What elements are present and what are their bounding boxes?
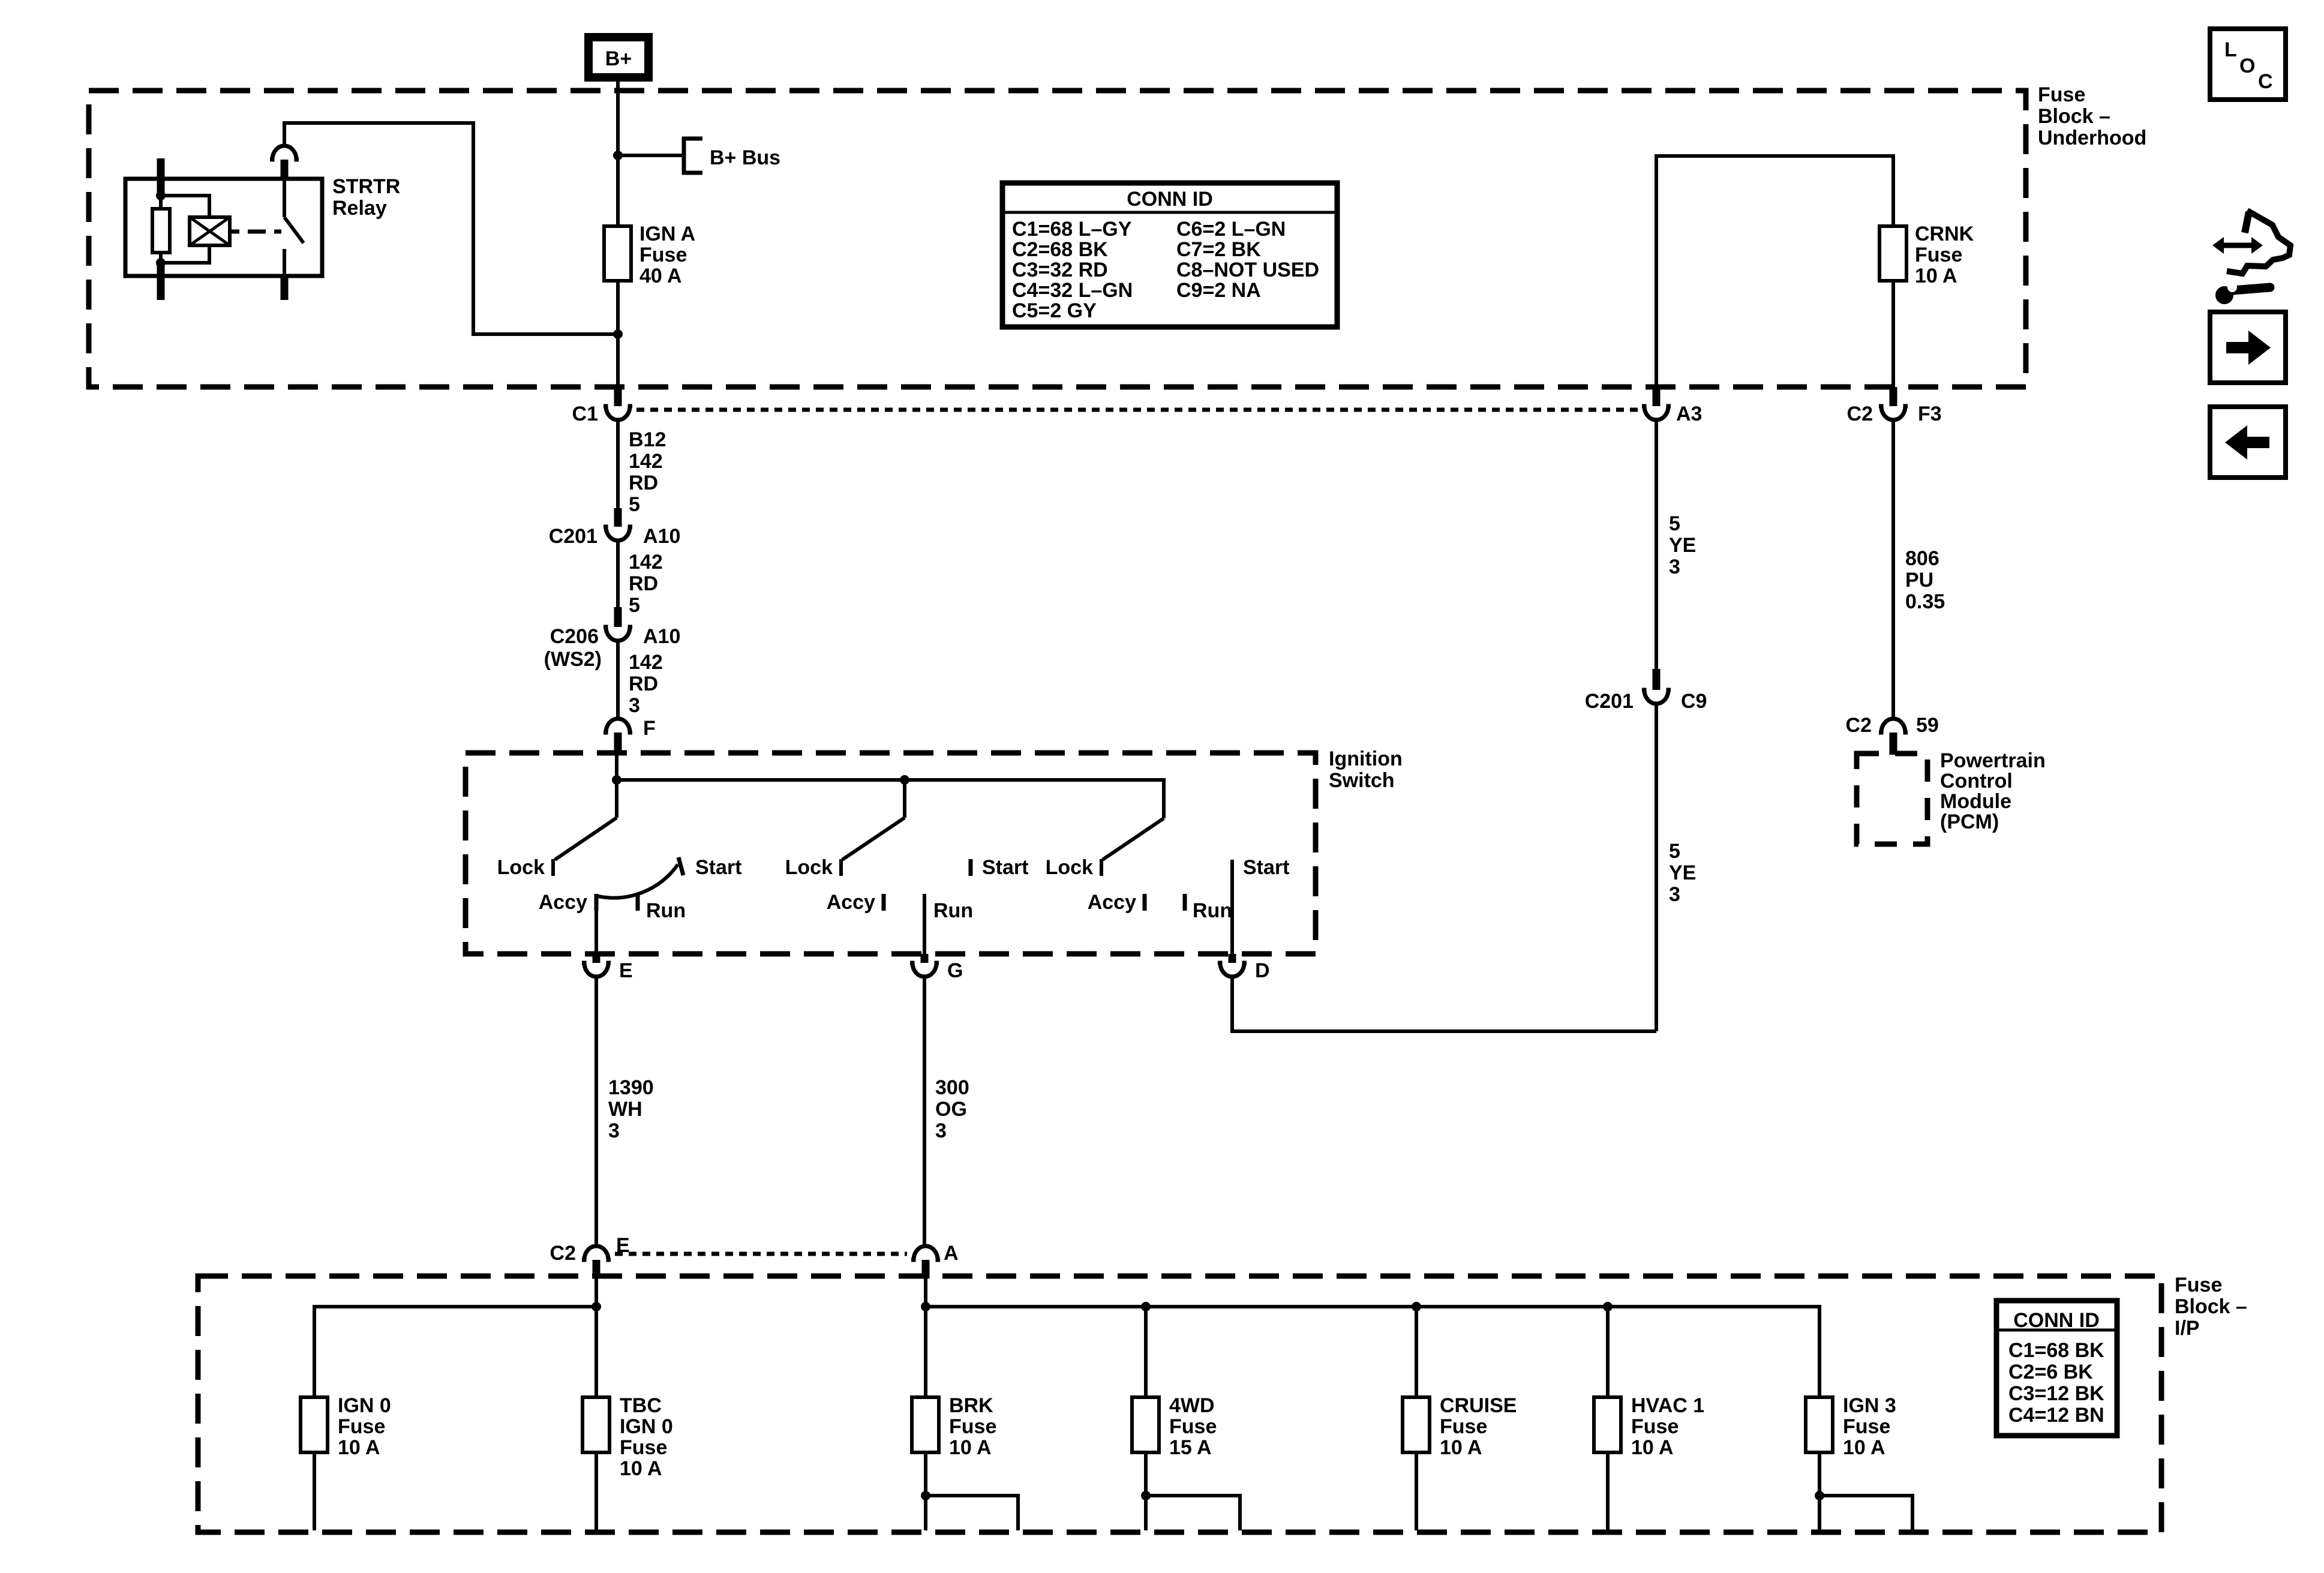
- svg-text:CRUISE: CRUISE: [1440, 1394, 1517, 1417]
- svg-text:B+ Bus: B+ Bus: [710, 146, 780, 169]
- svg-text:Ignition: Ignition: [1329, 748, 1403, 770]
- fuse CRUISE 10 A: [1403, 1394, 1517, 1459]
- svg-text:40 A: 40 A: [639, 265, 682, 287]
- wire CRNK fuse to connector F3: [1891, 281, 1895, 387]
- node junction 4WD branch: [1141, 1302, 1151, 1311]
- svg-text:C4=32 L–GN: C4=32 L–GN: [1012, 279, 1133, 302]
- node junction switch 1 feed: [612, 775, 621, 785]
- node junction coil bottom: [156, 258, 166, 268]
- connector C201 pin C9 stub: [1653, 669, 1661, 690]
- wire C1 to C201, circuit 142 RD 5: [616, 421, 620, 508]
- svg-text:(WS2): (WS2): [544, 648, 602, 671]
- svg-text:806: 806: [1905, 547, 1939, 570]
- svg-text:10 A: 10 A: [1631, 1436, 1674, 1459]
- svg-text:C4=12 BN: C4=12 BN: [2008, 1404, 2104, 1427]
- fuse BRK 10 A: [912, 1394, 996, 1459]
- wire E to fuse block I/P, circuit 1390 WH 3: [594, 978, 598, 1245]
- svg-text:RD: RD: [629, 572, 658, 595]
- svg-text:Control: Control: [1940, 770, 2013, 792]
- ignition switch dashed enclosure: [466, 753, 1316, 954]
- wire switch 2 blade to Lock: [842, 818, 905, 860]
- connector pin A half-circle: [911, 1246, 940, 1260]
- svg-text:3: 3: [608, 1119, 620, 1142]
- wire C201 to C206, circuit 142 RD 5: [616, 542, 620, 607]
- connector A3 half-circle: [1642, 406, 1671, 420]
- label STRTR Relay: [332, 175, 400, 220]
- svg-text:3: 3: [1669, 883, 1680, 906]
- svg-text:0.35: 0.35: [1905, 590, 1945, 613]
- svg-text:Module: Module: [1940, 790, 2011, 813]
- svg-text:A10: A10: [643, 625, 680, 648]
- svg-text:YE: YE: [1669, 861, 1696, 884]
- wire switch 2 Run contact to connector G: [923, 894, 926, 954]
- wire coil loop top: [161, 196, 209, 220]
- svg-text:WH: WH: [608, 1098, 642, 1121]
- connector C2 pin E stub: [593, 1260, 600, 1278]
- wire relay to IGN A fuse output: [284, 123, 618, 334]
- svg-text:Fuse: Fuse: [1915, 244, 1962, 266]
- svg-text:D: D: [1255, 959, 1270, 982]
- label Ignition Switch: [1329, 748, 1403, 792]
- svg-text:C3=32 RD: C3=32 RD: [1012, 259, 1108, 281]
- node junction BRK output: [921, 1491, 930, 1500]
- svg-text:Relay: Relay: [332, 197, 387, 220]
- wire 4WD branch drop: [1144, 1307, 1148, 1397]
- wire switch 2 pivot drop: [903, 780, 906, 818]
- wire switch 1 Accy contact to connector E: [594, 898, 598, 954]
- svg-text:CRNK: CRNK: [1915, 223, 1974, 245]
- svg-text:TBC: TBC: [620, 1394, 662, 1417]
- svg-text:10 A: 10 A: [620, 1457, 662, 1480]
- svg-text:HVAC 1: HVAC 1: [1631, 1394, 1704, 1417]
- svg-text:142: 142: [629, 450, 663, 473]
- svg-text:4WD: 4WD: [1169, 1394, 1215, 1417]
- svg-text:C9=2 NA: C9=2 NA: [1176, 279, 1261, 302]
- svg-text:Run: Run: [933, 899, 973, 922]
- svg-text:C3=12 BK: C3=12 BK: [2008, 1382, 2104, 1405]
- svg-text:142: 142: [629, 651, 663, 674]
- contact Accy switch 1: [594, 894, 599, 911]
- svg-text:C8–NOT USED: C8–NOT USED: [1176, 259, 1319, 281]
- node junction IGN 3 output: [1815, 1491, 1824, 1500]
- wire CRUISE branch drop: [1415, 1307, 1418, 1397]
- svg-text:C201: C201: [549, 525, 597, 548]
- node junction HVAC 1 branch: [1603, 1302, 1613, 1311]
- label circuit 142 RD 5: [629, 551, 663, 617]
- connector G stub: [921, 954, 929, 963]
- svg-text:G: G: [947, 959, 963, 982]
- label Fuse Block - I/P: [2175, 1274, 2247, 1340]
- svg-text:Fuse: Fuse: [1631, 1415, 1679, 1438]
- svg-text:C: C: [2258, 70, 2273, 93]
- svg-text:Lock: Lock: [497, 856, 545, 879]
- svg-text:Accy: Accy: [1088, 891, 1136, 914]
- wire B+ terminal down to IGN A fuse: [616, 77, 620, 226]
- svg-text:5: 5: [629, 493, 640, 516]
- svg-text:BRK: BRK: [949, 1394, 993, 1417]
- connector C201 pin C9 half-circle: [1642, 690, 1671, 704]
- svg-text:C2=68 BK: C2=68 BK: [1012, 238, 1108, 261]
- svg-text:C2: C2: [1846, 714, 1872, 737]
- svg-text:C2=6 BK: C2=6 BK: [2008, 1361, 2093, 1383]
- relay switch fixed contact bottom: [283, 249, 286, 276]
- node B+ battery terminal: [588, 37, 648, 77]
- wire HVAC 1 fuse output: [1606, 1452, 1610, 1530]
- svg-text:A10: A10: [643, 525, 680, 548]
- svg-text:3: 3: [1669, 556, 1680, 578]
- svg-text:3: 3: [629, 694, 640, 717]
- connector half at relay switch pin: [270, 146, 299, 160]
- relay switch fixed contact top: [283, 179, 286, 217]
- wire BRK fuse output: [924, 1452, 927, 1530]
- svg-text:1390: 1390: [608, 1076, 654, 1099]
- icon back arrow box: [2210, 407, 2286, 478]
- wire F3 to PCM, circuit 806 PU 0.35: [1891, 421, 1895, 718]
- svg-text:59: 59: [1916, 714, 1939, 737]
- node junction 4WD output: [1141, 1491, 1151, 1500]
- svg-text:C5=2 GY: C5=2 GY: [1012, 299, 1097, 322]
- wire switch 3 Start contact to connector D: [1230, 860, 1234, 954]
- wire C9 down to D branch, circuit 5 YE 3: [1655, 705, 1658, 1031]
- relay coil pin bottom: [157, 263, 165, 300]
- svg-text:I/P: I/P: [2175, 1317, 2200, 1340]
- svg-text:C6=2 L–GN: C6=2 L–GN: [1176, 218, 1286, 241]
- svg-text:C1: C1: [572, 403, 598, 425]
- label Powertrain Control Module (PCM): [1940, 749, 2046, 833]
- relay STRTR box: [125, 179, 322, 276]
- svg-text:C201: C201: [1585, 690, 1634, 713]
- icon vehicle outline with wrench: [2215, 211, 2290, 304]
- wire switch 1 pivot drop: [615, 780, 618, 818]
- relay STRTR coil pin top: [157, 158, 165, 196]
- contact Start switch 2: [969, 859, 973, 876]
- svg-text:Accy: Accy: [827, 891, 875, 914]
- svg-text:C2: C2: [550, 1242, 576, 1265]
- svg-text:10 A: 10 A: [1843, 1436, 1885, 1459]
- svg-text:PU: PU: [1905, 569, 1933, 592]
- svg-text:Fuse: Fuse: [949, 1415, 996, 1438]
- connector C1 pin B12 stub: [614, 387, 622, 406]
- connector A3 stub: [1653, 387, 1661, 406]
- wire coil loop bottom: [161, 243, 209, 263]
- svg-text:YE: YE: [1669, 534, 1696, 557]
- connector C206 (WS2) stub: [614, 607, 622, 627]
- label circuit 806 PU 0.35: [1905, 547, 1945, 613]
- svg-text:15 A: 15 A: [1169, 1436, 1212, 1459]
- wire 4WD fuse output: [1144, 1452, 1148, 1530]
- svg-text:Lock: Lock: [785, 856, 833, 879]
- svg-text:Start: Start: [982, 856, 1028, 879]
- svg-text:10 A: 10 A: [338, 1436, 380, 1459]
- connector G half-circle: [910, 963, 939, 977]
- svg-text:C9: C9: [1681, 690, 1707, 713]
- svg-text:Underhood: Underhood: [2038, 127, 2146, 149]
- icon LOC legend box: [2210, 29, 2286, 100]
- node junction fuse output / relay feed: [613, 329, 623, 339]
- svg-text:Fuse: Fuse: [338, 1415, 385, 1438]
- svg-text:5: 5: [629, 594, 640, 617]
- icon vehicle service double arrow: [2212, 237, 2263, 254]
- svg-text:Fuse: Fuse: [620, 1436, 667, 1459]
- contact Lock switch 2: [839, 859, 843, 876]
- svg-text:C1=68 BK: C1=68 BK: [2008, 1339, 2104, 1362]
- contact Accy switch 3: [1143, 894, 1147, 911]
- contact Accy switch 2: [882, 894, 886, 911]
- wire IGN 3 output stub branch: [1819, 1496, 1912, 1530]
- svg-text:STRTR: STRTR: [332, 175, 400, 198]
- wire dotted connector line C1 to A3: [636, 408, 1642, 412]
- wire 4WD output stub branch: [1146, 1496, 1240, 1530]
- wire G to fuse block I/P, circuit 300 OG 3: [923, 978, 926, 1245]
- node junction B+ bus tap: [613, 151, 623, 160]
- relay switch movable arm: [284, 217, 304, 243]
- label C206 (WS2): [544, 625, 602, 671]
- connector D stub: [1229, 954, 1236, 963]
- wire ignition 3 bus: [926, 1307, 1819, 1397]
- label circuit 300 OG 3: [935, 1076, 969, 1142]
- wire IGN 3 fuse output: [1818, 1452, 1821, 1530]
- svg-text:C206: C206: [550, 625, 599, 648]
- svg-text:Accy: Accy: [539, 891, 587, 914]
- fuse IGN 0 10 A: [301, 1394, 391, 1459]
- svg-text:CONN ID: CONN ID: [1127, 188, 1213, 211]
- connector E stub: [593, 954, 600, 963]
- wire D to crank request run to PCM branch: [1232, 978, 1656, 1031]
- connector pin F stub: [614, 733, 622, 753]
- fuse TBC IGN 0 10 A: [582, 1394, 673, 1480]
- svg-text:10 A: 10 A: [949, 1436, 992, 1459]
- wire branch to IGN 0 fuse: [314, 1307, 596, 1397]
- label circuit 5 YE 3: [1669, 512, 1696, 578]
- node B+ Bus symbol: [682, 137, 780, 175]
- svg-text:5: 5: [1669, 840, 1680, 863]
- svg-text:Fuse: Fuse: [1169, 1415, 1217, 1438]
- node junction E feed branch: [591, 1302, 601, 1311]
- relay switch pin bottom: [281, 276, 289, 300]
- wire TBC IGN 0 fuse output: [594, 1452, 598, 1530]
- resistor relay coil suppression: [152, 209, 170, 253]
- contact Lock switch 3: [1100, 859, 1103, 876]
- wire HVAC 1 branch drop: [1606, 1307, 1610, 1397]
- svg-text:Start: Start: [1243, 856, 1289, 879]
- relay coil winding symbol (box with X): [190, 217, 230, 245]
- wire relay coil internal: [159, 196, 163, 209]
- svg-text:10 A: 10 A: [1440, 1436, 1482, 1459]
- label Fuse Block - Underhood: [2038, 83, 2146, 149]
- label circuit 1390 WH 3: [608, 1076, 654, 1142]
- svg-text:Fuse: Fuse: [1440, 1415, 1487, 1438]
- contact Lock switch 1: [551, 859, 555, 876]
- svg-text:10 A: 10 A: [1915, 265, 1957, 287]
- svg-text:OG: OG: [935, 1098, 967, 1121]
- connector C206 half-circle: [603, 627, 632, 641]
- svg-text:IGN A: IGN A: [639, 223, 695, 245]
- svg-text:C2: C2: [1847, 403, 1873, 425]
- svg-text:E: E: [619, 959, 633, 982]
- wire C206 to F, circuit 142 RD 3: [616, 642, 620, 718]
- wire dotted connector line E to A: [615, 1252, 907, 1256]
- svg-text:Switch: Switch: [1329, 769, 1395, 792]
- svg-text:Run: Run: [1193, 899, 1232, 922]
- connector F3 stub: [1890, 387, 1897, 406]
- svg-text:B12: B12: [629, 428, 666, 451]
- contact Run switch 3: [1183, 894, 1187, 911]
- table CONN ID I/P: [1996, 1301, 2117, 1436]
- svg-text:CONN ID: CONN ID: [2013, 1309, 2100, 1332]
- svg-text:Block –: Block –: [2038, 105, 2110, 128]
- svg-text:3: 3: [935, 1119, 947, 1142]
- connector pin F half-circle: [603, 719, 632, 733]
- svg-text:Fuse: Fuse: [2175, 1274, 2222, 1296]
- wire to B+ Bus: [618, 154, 682, 157]
- svg-text:F: F: [643, 717, 656, 740]
- label circuit 142 RD 5: [629, 450, 663, 516]
- fuse CRNK 10 A: [1879, 223, 1974, 287]
- node junction switch 2 feed: [900, 775, 909, 785]
- connector E half-circle: [582, 963, 611, 977]
- wire CRUISE fuse output: [1415, 1452, 1418, 1530]
- fuse IGN A 40 A: [604, 223, 695, 287]
- wire IGN 0 fuse output: [313, 1452, 316, 1530]
- svg-text:C1=68 L–GY: C1=68 L–GY: [1012, 218, 1132, 241]
- svg-text:A: A: [944, 1242, 959, 1265]
- connector C201 half-circle: [603, 527, 632, 541]
- connector C2 pin 59 stub: [1890, 733, 1897, 755]
- connector F3 half-circle: [1879, 406, 1908, 420]
- contact Run switch 1: [636, 894, 640, 911]
- svg-text:F3: F3: [1918, 403, 1942, 425]
- svg-text:IGN 0: IGN 0: [338, 1394, 391, 1417]
- svg-text:RD: RD: [629, 472, 658, 494]
- svg-text:Fuse: Fuse: [639, 244, 687, 266]
- connector C2 pin E half-circle: [582, 1246, 611, 1260]
- svg-text:Block –: Block –: [2175, 1295, 2247, 1318]
- powertrain control module PCM dashed box: [1857, 754, 1927, 844]
- svg-text:A3: A3: [1676, 403, 1702, 425]
- wire E feed inside fuse block: [594, 1278, 598, 1397]
- connector C201 stub: [614, 508, 622, 527]
- svg-text:O: O: [2239, 55, 2255, 77]
- contact Start switch 1 (slanted tick): [678, 857, 683, 875]
- wiper arc switch 1 Accy to Start: [598, 864, 678, 898]
- svg-text:Start: Start: [695, 856, 741, 879]
- svg-text:B+: B+: [605, 47, 632, 70]
- svg-text:Fuse: Fuse: [2038, 83, 2085, 106]
- node junction A feed: [921, 1302, 930, 1311]
- node junction coil top: [156, 191, 166, 200]
- connector D half-circle: [1218, 963, 1247, 977]
- fuse IGN 3 10 A: [1806, 1394, 1896, 1459]
- svg-text:IGN 3: IGN 3: [1843, 1394, 1896, 1417]
- connector C1 half-circle: [603, 406, 632, 420]
- svg-text:5: 5: [1669, 512, 1680, 535]
- svg-text:L: L: [2224, 38, 2237, 61]
- wire switch 1 blade to Lock: [555, 818, 617, 860]
- wire A feed bus inside fuse block: [924, 1278, 927, 1397]
- svg-text:C7=2 BK: C7=2 BK: [1176, 238, 1261, 261]
- fuse HVAC 1 10 A: [1594, 1394, 1704, 1459]
- svg-text:300: 300: [935, 1076, 969, 1099]
- svg-text:IGN 0: IGN 0: [620, 1415, 673, 1438]
- wire ignition switch feed bus: [617, 753, 1164, 818]
- label circuit 5 YE 3: [1669, 840, 1696, 906]
- wire resistor bottom: [159, 253, 163, 264]
- svg-text:(PCM): (PCM): [1940, 810, 1999, 833]
- node junction CRUISE branch: [1412, 1302, 1421, 1311]
- relay switch pin stub to connector: [281, 160, 289, 179]
- icon forward arrow box: [2210, 312, 2286, 383]
- table CONN ID underhood: [1002, 183, 1337, 327]
- wire switch 3 blade to Lock: [1103, 818, 1164, 860]
- wire BRK output stub branch: [926, 1496, 1018, 1530]
- fuse 4WD 15 A: [1132, 1394, 1217, 1459]
- svg-text:Powertrain: Powertrain: [1940, 749, 2046, 772]
- wire A3 to C201 C9, circuit 5 YE 3: [1655, 421, 1658, 669]
- label circuit 142 RD 3: [629, 651, 663, 717]
- svg-text:Fuse: Fuse: [1843, 1415, 1890, 1438]
- connector C2 pin 59 half-circle: [1879, 719, 1908, 733]
- wire IGN A fuse to connector C1: [616, 281, 620, 387]
- wire underhood feed to A3 and CRNK fuse: [1656, 156, 1893, 387]
- svg-text:RD: RD: [629, 673, 658, 695]
- fuse block I/P dashed enclosure: [198, 1276, 2161, 1532]
- svg-text:142: 142: [629, 551, 663, 574]
- wire dashed actuation link: [230, 230, 281, 234]
- svg-text:Lock: Lock: [1046, 856, 1093, 879]
- fuse block underhood dashed enclosure: [89, 91, 2026, 387]
- connector pin A stub: [922, 1260, 930, 1278]
- svg-text:Run: Run: [646, 899, 686, 922]
